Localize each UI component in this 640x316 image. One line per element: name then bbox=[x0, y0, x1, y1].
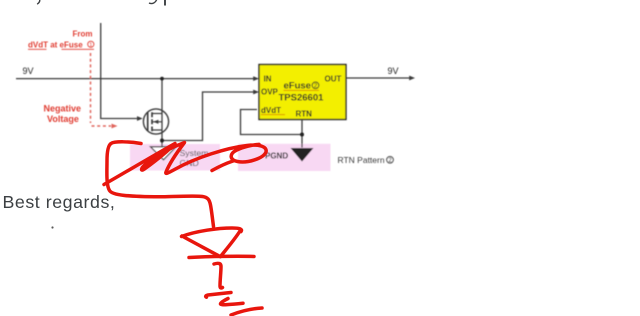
svg-text:Best regards,: Best regards, bbox=[3, 192, 116, 212]
svg-text:OUT: OUT bbox=[325, 75, 342, 84]
svg-text:IN: IN bbox=[264, 75, 272, 84]
svg-text:RTN: RTN bbox=[296, 110, 313, 119]
svg-text:dVdT at eFuse: dVdT at eFuse bbox=[28, 41, 83, 50]
svg-text:9V: 9V bbox=[23, 66, 34, 76]
svg-text:OVP: OVP bbox=[261, 88, 279, 97]
svg-text:From: From bbox=[73, 30, 93, 39]
svg-text:Negative: Negative bbox=[44, 104, 82, 114]
svg-text:9V: 9V bbox=[388, 66, 399, 76]
svg-text:RTN Pattern: RTN Pattern bbox=[338, 155, 385, 165]
svg-text:TPS26601: TPS26601 bbox=[279, 93, 325, 104]
svg-text:Voltage: Voltage bbox=[47, 114, 79, 124]
svg-text:1: 1 bbox=[89, 42, 92, 48]
svg-text:PGND: PGND bbox=[265, 152, 288, 161]
svg-text:eFuse: eFuse bbox=[284, 81, 311, 92]
svg-text:dVdT: dVdT bbox=[261, 106, 281, 115]
